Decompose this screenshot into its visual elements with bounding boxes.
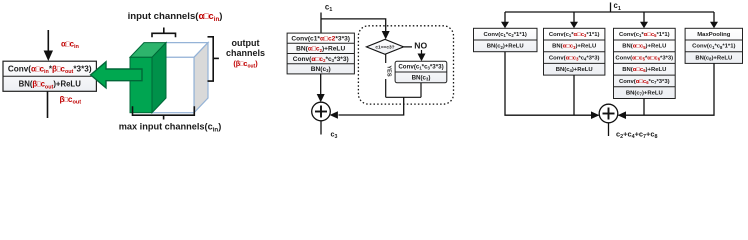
svg-text:(β□cout): (β□cout) — [233, 59, 258, 70]
output wire c3 — [320, 121, 322, 135]
distribution bus — [505, 11, 714, 13]
svg-text:BN(c2)+ReLU: BN(c2)+ReLU — [487, 44, 524, 50]
svg-text:Conv(c1*α□c5*1*1): Conv(c1*α□c5*1*1) — [619, 32, 670, 38]
svg-text:Conv(α□c6*c7*3*3): Conv(α□c6*c7*3*3) — [619, 79, 670, 85]
branch 2 boxes — [544, 28, 605, 75]
svg-text:BN(c3): BN(c3) — [311, 66, 331, 73]
green arrow into Conv box — [91, 62, 142, 88]
svg-text:output: output — [232, 38, 260, 48]
svg-text:BN(c8)+ReLU: BN(c8)+ReLU — [695, 55, 732, 61]
branch 3 output wire — [643, 99, 645, 116]
branch 2 output wire — [573, 75, 575, 115]
branch 4 output wire — [619, 63, 715, 115]
NO label — [412, 40, 429, 50]
bottom bracket — [133, 106, 195, 119]
output channels bracket — [208, 37, 219, 81]
merge bus — [386, 96, 421, 98]
svg-text:Conv(c1*c2*1*1): Conv(c1*c2*1*1) — [484, 32, 527, 38]
branch 3 boxes — [614, 28, 676, 98]
output wire below plus — [608, 123, 610, 136]
svg-text:input channels(α□cin): input channels(α□cin) — [128, 11, 223, 23]
wire branch to diamond — [321, 19, 386, 32]
inner box output wire — [420, 83, 422, 98]
svg-text:BN(c4)+ReLU: BN(c4)+ReLU — [556, 67, 593, 73]
output wire below box — [47, 91, 49, 118]
cube: white box right face (gray) — [194, 43, 208, 113]
svg-text:BN(α□c3)+ReLU: BN(α□c3)+ReLU — [552, 44, 596, 50]
decision diamond c1==c3? — [366, 39, 403, 54]
cube: white box top face — [152, 43, 208, 58]
drop to branch 4 — [710, 12, 718, 28]
green slab top face — [130, 43, 166, 58]
svg-text:BN(c3): BN(c3) — [412, 74, 431, 81]
branch 4 boxes — [685, 28, 742, 63]
svg-text:Conv(c1*c8*1*1): Conv(c1*c8*1*1) — [692, 44, 735, 50]
YES label (rotated) — [382, 63, 391, 79]
svg-text:c2+c4+c7+c8: c2+c4+c7+c8 — [616, 130, 657, 140]
svg-text:BN(α□c5)+ReLU: BN(α□c5)+ReLU — [622, 44, 666, 50]
svg-text:Conv(α□c5*α□c6*3*3): Conv(α□c5*α□c6*3*3) — [615, 55, 673, 61]
plus junction circle — [312, 102, 331, 121]
stub from c1 — [610, 3, 612, 13]
svg-text:Conv(α□c2*c3*3*3): Conv(α□c2*c3*3*3) — [293, 56, 349, 63]
svg-text:channels: channels — [226, 48, 265, 58]
svg-text:YES: YES — [385, 65, 391, 76]
wire c1 down — [320, 13, 322, 34]
svg-text:Conv(c1*α□c3*1*1): Conv(c1*α□c3*1*1) — [549, 32, 600, 38]
dashed container — [358, 26, 453, 104]
left stack of boxes — [287, 33, 354, 74]
YES wire — [385, 54, 387, 97]
green slab front face — [130, 57, 152, 112]
svg-text:BN(c7)+ReLU: BN(c7)+ReLU — [626, 91, 663, 97]
branch 1 output wire — [505, 52, 599, 115]
merged wire down and left into plus — [339, 97, 404, 115]
svg-text:NO: NO — [414, 40, 427, 50]
svg-text:Conv(c1*c3*3*3): Conv(c1*c3*3*3) — [398, 64, 443, 71]
output channels label — [226, 38, 265, 70]
svg-text:Conv(α□c3*c4*3*3): Conv(α□c3*c4*3*3) — [549, 55, 600, 61]
Conv/BN box — [3, 61, 96, 91]
NO wire — [404, 47, 422, 54]
branch 1 boxes — [474, 28, 538, 51]
drop to branch 3 — [640, 12, 648, 28]
svg-text:MaxPooling: MaxPooling — [697, 32, 730, 38]
svg-text:BN(α□c6)+ReLU: BN(α□c6)+ReLU — [622, 67, 666, 73]
green slab right face — [152, 43, 166, 113]
svg-text:c1==c3?: c1==c3? — [375, 45, 394, 51]
svg-text:Conv(c1*α□c2*3*3): Conv(c1*α□c2*3*3) — [291, 36, 350, 43]
drop to branch 1 — [501, 12, 509, 28]
top bracket — [152, 28, 176, 38]
inner box Conv/BN — [395, 61, 447, 83]
wire stack to plus — [320, 74, 322, 95]
input arrow into Conv box — [44, 30, 53, 61]
drop to branch 2 — [570, 12, 578, 28]
plus junction circle panel3 — [599, 104, 618, 123]
cube: white box front face — [152, 57, 194, 112]
